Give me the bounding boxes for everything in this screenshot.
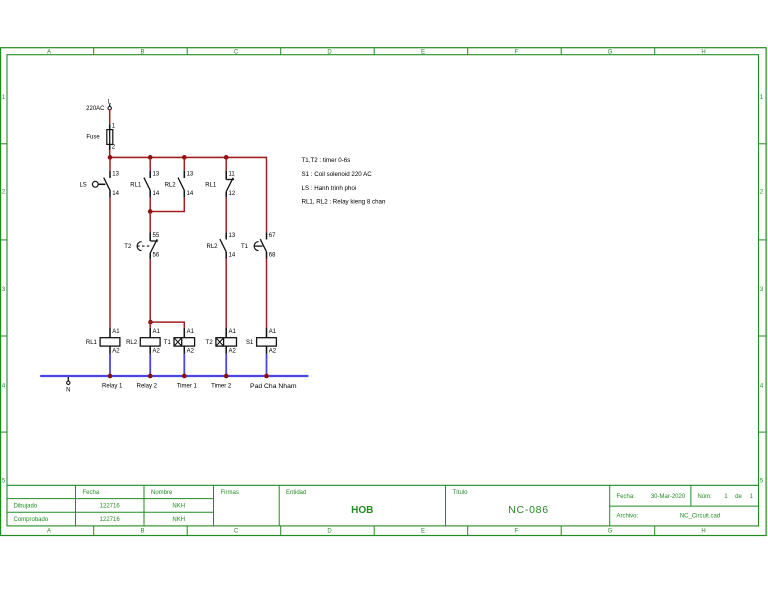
svg-text:13: 13: [112, 172, 119, 178]
svg-text:11: 11: [229, 172, 236, 178]
svg-text:56: 56: [153, 253, 160, 259]
svg-text:Firmas: Firmas: [221, 490, 239, 496]
wire RL1 coil A2 to neutral bus: [109, 354, 111, 376]
svg-text:122716: 122716: [100, 517, 121, 523]
svg-text:T2: T2: [124, 244, 132, 250]
svg-text:C: C: [234, 49, 239, 55]
timer contact T2 55-56 (NC, on-delay): [149, 232, 151, 241]
svg-text:30-Mar-2020: 30-Mar-2020: [651, 494, 686, 500]
wire RL2 coil A2 to neutral bus: [149, 354, 151, 376]
svg-text:Entidad: Entidad: [286, 490, 306, 496]
svg-text:D: D: [327, 529, 332, 535]
wire bus to LS contact: [109, 157, 111, 171]
svg-text:RL1: RL1: [205, 182, 217, 188]
svg-text:12: 12: [229, 191, 236, 197]
svg-text:A2: A2: [112, 349, 120, 355]
contact RL2 13-14: [183, 171, 185, 178]
svg-text:N: N: [66, 387, 70, 393]
svg-text:Pad Cha Nham: Pad Cha Nham: [250, 383, 297, 390]
node S1 on neutral bus: [264, 374, 269, 379]
wire bus to RL1 contact: [149, 157, 151, 171]
svg-text:14: 14: [112, 191, 119, 197]
terminal N: [67, 377, 69, 381]
svg-text:E: E: [421, 529, 425, 535]
svg-text:Núm:: Núm:: [698, 494, 713, 500]
svg-text:T1: T1: [164, 340, 172, 346]
svg-text:RL2: RL2: [165, 182, 177, 188]
svg-text:Fecha:: Fecha:: [617, 494, 636, 500]
solenoid coil S1: [266, 328, 268, 338]
svg-text:RL2: RL2: [126, 340, 138, 346]
svg-text:14: 14: [153, 191, 160, 197]
contact RL1 13-14: [149, 171, 151, 178]
svg-text:NKH: NKH: [172, 517, 185, 523]
node RL1 branch: [148, 155, 153, 160]
wire RL2 lower contact to T2 coil: [225, 259, 227, 328]
node RL2 on neutral bus: [148, 374, 153, 379]
wire bus corner down to T1 contact: [266, 157, 268, 233]
svg-text:LS: LS: [79, 182, 86, 188]
svg-text:HOB: HOB: [351, 505, 373, 516]
timer contact T1 67-68 (NO, on-delay): [266, 232, 268, 239]
wire LS to RL1 coil: [109, 197, 111, 328]
wire S1 coil A2 to neutral bus: [266, 354, 268, 376]
svg-text:Fecha: Fecha: [83, 490, 100, 496]
svg-text:T1,T2 : timer 0-6s: T1,T2 : timer 0-6s: [302, 157, 351, 164]
contact RL2 13-14 (lower): [225, 232, 227, 239]
svg-text:de: de: [735, 494, 742, 500]
svg-text:S1: S1: [246, 340, 254, 346]
svg-text:14: 14: [229, 253, 236, 259]
svg-text:NC_Circuit.cad: NC_Circuit.cad: [680, 514, 720, 520]
svg-text:Timer 2: Timer 2: [211, 384, 232, 390]
node RL1 NC branch: [224, 155, 229, 160]
svg-text:G: G: [608, 529, 613, 535]
svg-text:C: C: [234, 529, 239, 535]
title block: [7, 484, 759, 486]
node T2 on neutral bus: [224, 374, 229, 379]
svg-text:Nombre: Nombre: [151, 490, 173, 496]
svg-text:NKH: NKH: [172, 504, 185, 510]
svg-text:14: 14: [187, 191, 194, 197]
node RL1 on neutral bus: [108, 374, 113, 379]
svg-text:E: E: [421, 49, 425, 55]
svg-text:A: A: [47, 529, 51, 535]
svg-text:Fuse: Fuse: [86, 134, 100, 140]
wire junction to RL2 coil: [149, 322, 151, 328]
svg-text:Título: Título: [453, 490, 469, 496]
svg-text:T2: T2: [206, 340, 214, 346]
svg-text:F: F: [515, 529, 519, 535]
timer coil T1: [183, 328, 185, 338]
svg-text:A1: A1: [187, 329, 195, 335]
svg-text:A1: A1: [112, 329, 120, 335]
svg-text:F: F: [515, 49, 519, 55]
svg-text:67: 67: [269, 233, 276, 239]
svg-text:B: B: [140, 49, 144, 55]
svg-text:13: 13: [187, 172, 194, 178]
wire T1 coil A2 to neutral bus: [183, 354, 185, 376]
wire fuse to bus: [109, 150, 111, 157]
svg-text:Timer 1: Timer 1: [177, 384, 198, 390]
svg-text:13: 13: [229, 233, 236, 239]
svg-text:A1: A1: [269, 329, 277, 335]
svg-text:NC-086: NC-086: [508, 504, 549, 516]
svg-text:Archivo:: Archivo:: [617, 514, 639, 520]
svg-text:Comprobado: Comprobado: [14, 517, 49, 523]
svg-text:T1: T1: [241, 244, 249, 250]
svg-text:A2: A2: [153, 349, 161, 355]
wire junction across to T1 coil: [150, 322, 184, 328]
red supply bus wire: [110, 156, 267, 158]
svg-text:13: 13: [153, 172, 160, 178]
svg-text:A2: A2: [269, 349, 277, 355]
wire junction to T2 contact: [149, 212, 151, 233]
node T1 on neutral bus: [182, 374, 187, 379]
svg-text:A2: A2: [187, 349, 195, 355]
svg-text:A2: A2: [229, 349, 237, 355]
svg-text:A1: A1: [229, 329, 237, 335]
wire bus to RL1 NC contact: [225, 157, 227, 171]
node at fuse/LS: [108, 155, 113, 160]
wire T2 coil A2 to neutral bus: [225, 354, 227, 376]
svg-text:H: H: [701, 49, 705, 55]
svg-text:Relay 2: Relay 2: [137, 384, 158, 390]
relay coil RL1: [109, 328, 111, 338]
svg-text:55: 55: [153, 233, 160, 239]
svg-text:Dibujado: Dibujado: [14, 504, 38, 510]
svg-text:220AC: 220AC: [86, 106, 105, 112]
wire bus to RL2 contact: [183, 157, 185, 171]
fuse F1: [109, 124, 111, 129]
svg-text:RL1, RL2 : Relay kieng 8 chan: RL1, RL2 : Relay kieng 8 chan: [302, 198, 386, 205]
svg-text:S1 : Coil solenoid 220 AC: S1 : Coil solenoid 220 AC: [302, 171, 373, 178]
svg-text:RL1: RL1: [130, 182, 142, 188]
node RL2 branch: [182, 155, 187, 160]
svg-text:RL2: RL2: [206, 244, 218, 250]
svg-text:A: A: [47, 49, 51, 55]
wire L to fuse: [109, 110, 111, 124]
svg-text:H: H: [701, 529, 705, 535]
svg-text:G: G: [608, 49, 613, 55]
wire T1 contact to S1 coil: [266, 259, 268, 328]
wire RL1 NC to RL2 contact: [225, 197, 227, 232]
relay coil RL2: [149, 328, 151, 338]
svg-text:RL1: RL1: [86, 340, 98, 346]
node RL2/T1 coil feed: [148, 320, 153, 325]
svg-text:122716: 122716: [100, 504, 121, 510]
svg-text:B: B: [140, 529, 144, 535]
limit switch LS 13-14: [109, 171, 111, 178]
contact RL1 11-12 (NC): [225, 171, 227, 180]
neutral bus N (blue): [40, 375, 308, 377]
node RL1/RL2 parallel join: [148, 209, 153, 214]
wire RL1 contact to junction: [149, 197, 151, 211]
svg-text:LS : Hanh trinh phoi: LS : Hanh trinh phoi: [302, 185, 357, 192]
svg-text:68: 68: [269, 253, 276, 259]
svg-text:D: D: [327, 49, 332, 55]
svg-text:A1: A1: [153, 329, 161, 335]
wire RL2 contact down and left to junction: [150, 197, 184, 211]
wire T2 contact to junction above RL2 coil: [149, 259, 151, 322]
svg-text:Relay 1: Relay 1: [102, 384, 123, 390]
timer coil T2: [225, 328, 227, 338]
